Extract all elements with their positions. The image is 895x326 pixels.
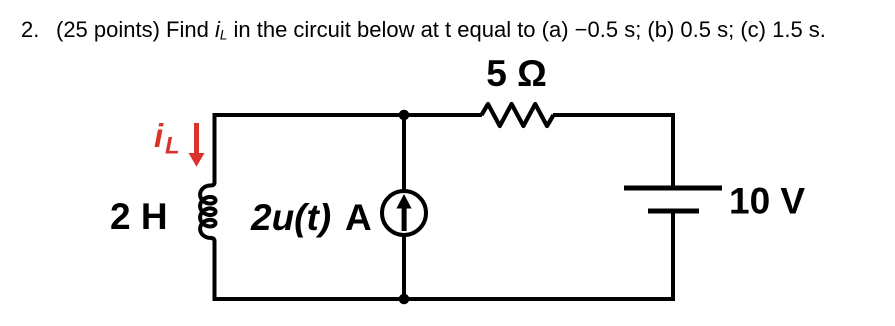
battery V1 top plate (long, +) (624, 186, 722, 191)
svg-text:A: A (345, 197, 372, 238)
wire middle branch lower (current source to node B) (402, 235, 406, 299)
svg-text:5 Ω: 5 Ω (486, 53, 547, 94)
resistor R (5 ohm) zigzag on top wire (482, 104, 554, 126)
wire bottom-left + bottom wire + right wire lower segment (215, 211, 674, 299)
svg-text:L: L (165, 133, 180, 160)
inductor L1 (2 H) on left branch (200, 182, 215, 242)
svg-text:2 H: 2 H (110, 196, 168, 237)
label iL (red current label, bold italic) (154, 117, 180, 160)
svg-text:i: i (154, 117, 164, 154)
svg-text:2u(t): 2u(t) (250, 197, 331, 238)
wire middle branch upper (node A to current source) (402, 115, 406, 191)
wire top-left: top wire left segment + left wire upper segment (215, 115, 483, 183)
svg-text:2.: 2. (21, 17, 39, 42)
problem statement text (21, 17, 826, 43)
current source I1 (2u(t) A) circle (382, 191, 426, 235)
node B junction dot (bottom middle) (399, 294, 410, 305)
node A junction dot (top middle) (399, 110, 410, 121)
svg-text:10 V: 10 V (729, 181, 805, 222)
svg-text:(25 points) Find iL in the cir: (25 points) Find iL in the circuit below… (56, 17, 826, 43)
battery V1 bottom plate (short, -) (648, 209, 699, 214)
iL current direction arrow (red, down) (189, 123, 205, 167)
current source arrow (pointing up) (396, 194, 411, 231)
wire top-right: top wire right segment + right wire upper segment (553, 115, 673, 188)
